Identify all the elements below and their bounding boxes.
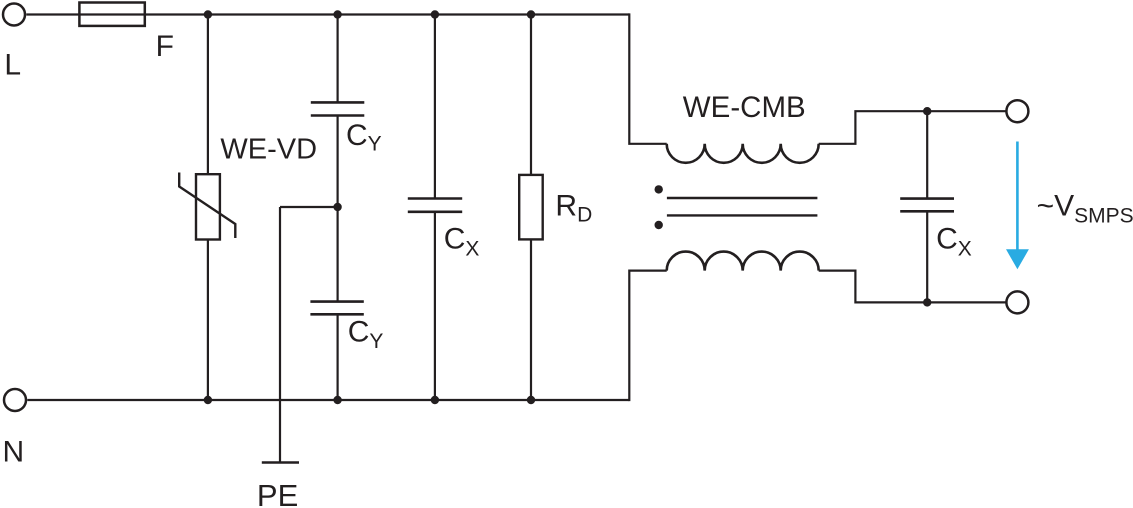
wire choke bottom-right bbox=[819, 271, 1007, 303]
core line lower bbox=[667, 214, 818, 216]
junction node top CX bbox=[431, 10, 439, 18]
capacitor CX input bbox=[408, 199, 462, 212]
terminal L bbox=[3, 4, 25, 26]
wire PE vertical bbox=[279, 207, 281, 463]
terminal N bbox=[4, 389, 26, 411]
varistor RV1 body bbox=[196, 174, 220, 239]
svg-text:CY: CY bbox=[348, 315, 384, 353]
junction node bottom RD bbox=[527, 396, 535, 404]
wire bottom rail bbox=[27, 399, 629, 401]
terminal output bottom bbox=[1006, 291, 1028, 313]
wire CY top bbox=[337, 15, 339, 103]
svg-text:WE-CMB: WE-CMB bbox=[683, 91, 806, 124]
junction node CY mid bbox=[333, 203, 341, 211]
inductor L2 bottom winding bbox=[667, 252, 819, 271]
varistor RV1 diagonal bbox=[179, 173, 235, 239]
wire CY bottom bbox=[337, 314, 339, 400]
wire CY middle bbox=[337, 116, 339, 302]
wire CX output top bbox=[926, 111, 928, 198]
capacitor CX output bbox=[900, 199, 954, 212]
polarity dot bottom bbox=[655, 221, 663, 229]
wire varistor top bbox=[207, 15, 209, 175]
ground PE bbox=[262, 461, 299, 464]
junction node top CY bbox=[333, 10, 341, 18]
wire top rail bbox=[26, 13, 629, 15]
wire RD bottom bbox=[530, 239, 532, 400]
svg-text:CX: CX bbox=[936, 223, 972, 261]
terminal output top bbox=[1006, 100, 1028, 122]
polarity dot top bbox=[655, 185, 663, 193]
wire choke bottom-left bbox=[629, 271, 666, 402]
core line upper bbox=[667, 197, 818, 199]
wire PE horizontal bbox=[280, 206, 338, 208]
wire CX top bbox=[434, 15, 436, 199]
inductor L1 top winding bbox=[667, 144, 819, 163]
fuse F bbox=[79, 3, 144, 26]
wire CX bottom bbox=[434, 212, 436, 400]
svg-text:CY: CY bbox=[346, 119, 382, 155]
svg-text:N: N bbox=[3, 436, 25, 469]
junction node top RD bbox=[527, 10, 535, 18]
arrow VSMPS bbox=[1006, 142, 1029, 270]
svg-text:PE: PE bbox=[257, 478, 298, 508]
svg-text:F: F bbox=[156, 30, 174, 63]
wire choke top-left bbox=[629, 13, 666, 143]
capacitor CY upper bbox=[311, 102, 365, 115]
junction node output bottom bbox=[923, 298, 931, 306]
wire varistor bottom bbox=[207, 240, 209, 401]
capacitor CY lower bbox=[310, 302, 363, 315]
svg-text:RD: RD bbox=[555, 190, 592, 227]
junction node bottom varistor bbox=[204, 396, 212, 404]
wire RD top bbox=[530, 15, 532, 175]
junction node bottom CY bbox=[333, 396, 341, 404]
svg-text:WE-VD: WE-VD bbox=[220, 133, 317, 165]
svg-text:L: L bbox=[4, 49, 21, 82]
junction node bottom CX bbox=[431, 396, 439, 404]
junction node top varistor bbox=[204, 10, 212, 18]
resistor RD body bbox=[519, 175, 543, 240]
wire CX output bottom bbox=[926, 211, 928, 302]
svg-text:CX: CX bbox=[444, 223, 480, 261]
wire choke top-right bbox=[819, 111, 1007, 144]
svg-text:~VSMPS: ~VSMPS bbox=[1037, 190, 1133, 228]
junction node output top bbox=[923, 107, 931, 115]
